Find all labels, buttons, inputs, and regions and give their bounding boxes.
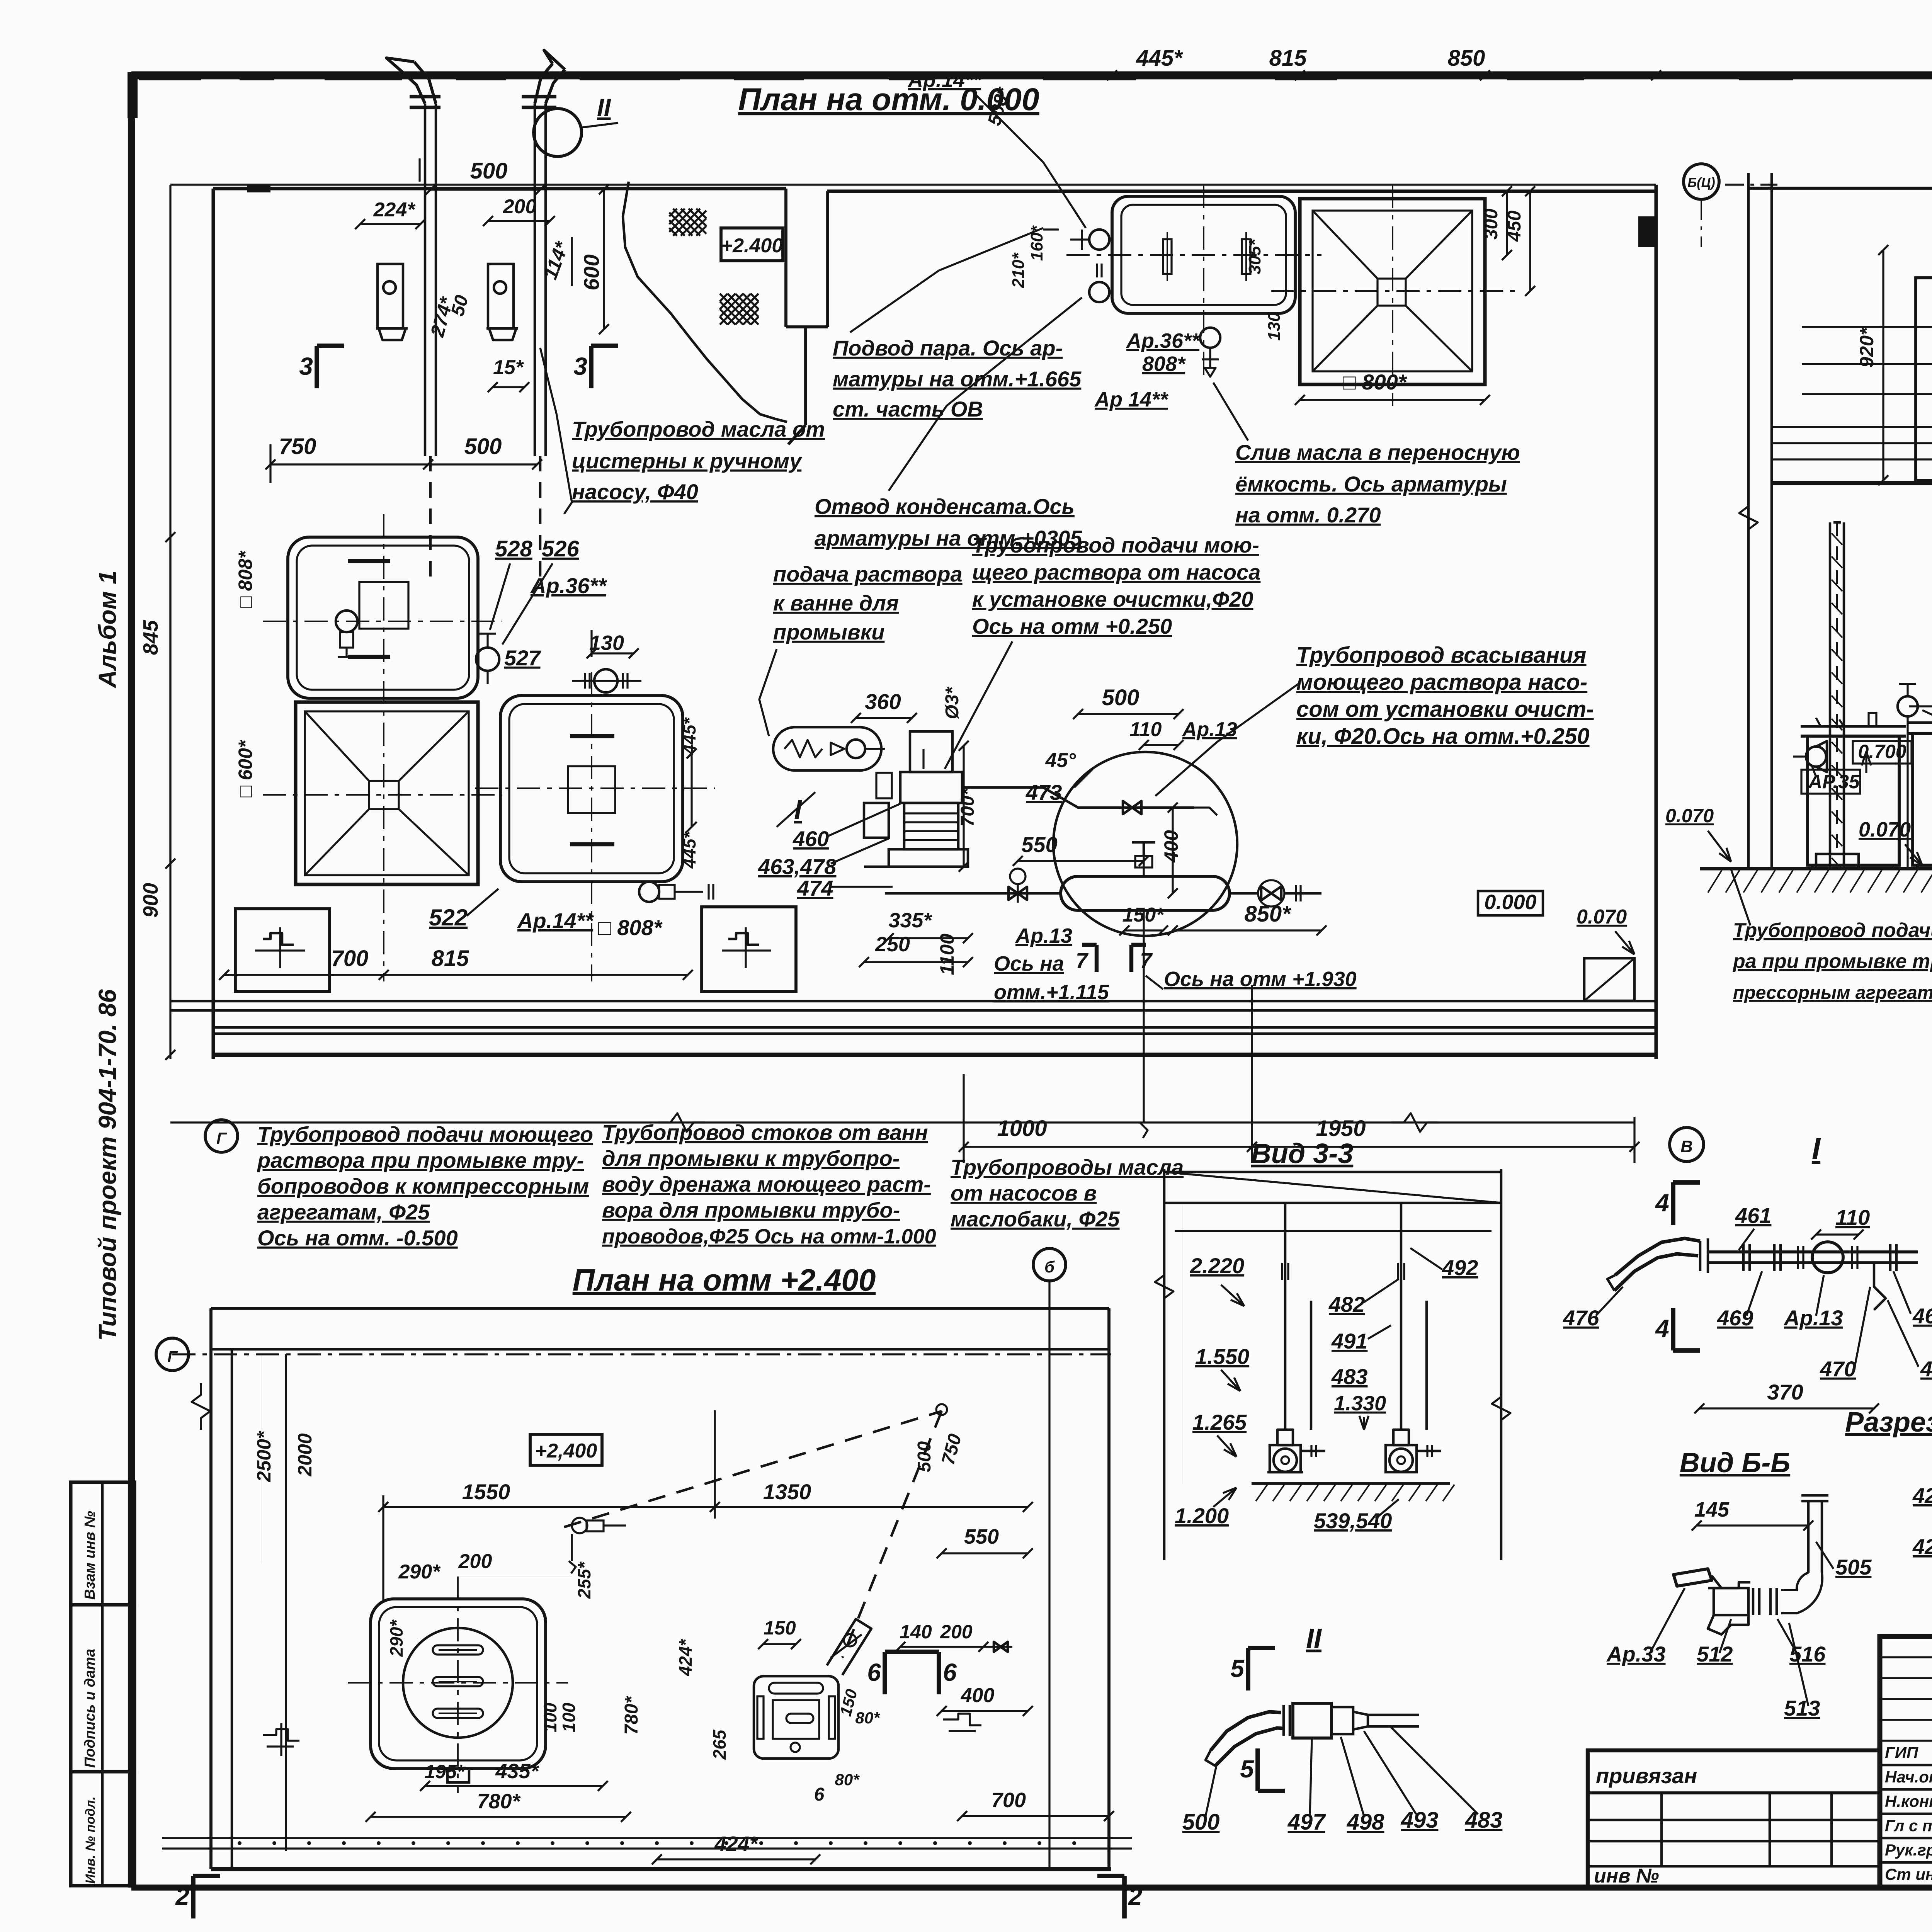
svg-text:ст. часть ОВ: ст. часть ОВ — [833, 397, 983, 421]
svg-text:100: 100 — [540, 1702, 560, 1732]
svg-text:+2.400: +2.400 — [721, 235, 783, 257]
vid33 spray unit 2 — [1386, 1445, 1441, 1472]
svg-text:473: 473 — [1026, 780, 1062, 804]
svg-text:Трубопровод подачи моющего рас: Трубопровод подачи моющего раство- — [1733, 919, 1932, 942]
valve Ар35 tank1 — [1793, 741, 1827, 772]
svg-text:отм.+1.115: отм.+1.115 — [994, 981, 1109, 1004]
vid22 top line — [1748, 187, 1932, 190]
svg-text:Ар.13: Ар.13 — [1783, 1306, 1843, 1330]
svg-text:255*: 255* — [574, 1561, 594, 1599]
svg-text:0.070: 0.070 — [1859, 818, 1911, 841]
svg-text:инв №: инв № — [1594, 1865, 1659, 1887]
svg-text:2.220: 2.220 — [1190, 1253, 1244, 1278]
hand pump riser pipe 1 — [386, 58, 440, 580]
svg-text:1.330: 1.330 — [1334, 1392, 1386, 1415]
svg-text:0.000: 0.000 — [1484, 891, 1536, 914]
vid22 axis line — [1725, 184, 1777, 185]
section mark 3 left — [315, 346, 319, 388]
bath 2 rounded — [500, 696, 683, 882]
svg-text:472: 472 — [1920, 1357, 1932, 1381]
svg-text:160*: 160* — [1027, 225, 1046, 261]
bath2 axis — [591, 672, 592, 981]
detail circle II — [534, 109, 582, 156]
dim 1000 1950 line — [964, 1146, 1634, 1148]
level label +2.400 boxed — [721, 228, 783, 261]
dim 700 815 line — [224, 974, 688, 976]
leader подача раствора — [759, 649, 777, 736]
plan24 outer walls — [211, 1308, 1109, 1869]
svg-text:900: 900 — [139, 883, 162, 918]
solution feed tank capsule — [773, 727, 885, 770]
svg-text:привязан: привязан — [1596, 1764, 1697, 1788]
svg-text:Н.контр: Н.контр — [1885, 1792, 1932, 1810]
svg-text:265: 265 — [709, 1729, 730, 1760]
plan24 axis Г — [172, 1353, 1111, 1355]
label 0.700 tank1 — [1853, 741, 1912, 764]
detail II section marks 5 — [1246, 1648, 1250, 1690]
svg-text:445*: 445* — [1136, 46, 1183, 71]
svg-text:497: 497 — [1287, 1810, 1327, 1835]
svg-text:б: б — [1044, 1258, 1055, 1276]
title block outer — [1880, 1636, 1932, 1888]
vid33 hanging pipe 2 — [1393, 1203, 1427, 1445]
suction elbow to circle — [1194, 808, 1217, 815]
svg-text:460: 460 — [1912, 1304, 1932, 1328]
svg-text:матуры на отм.+1.665: матуры на отм.+1.665 — [833, 367, 1082, 391]
svg-text:435*: 435* — [495, 1760, 539, 1783]
label Ар.35 — [1801, 770, 1860, 794]
svg-text:45°: 45° — [1045, 749, 1077, 772]
svg-text:335*: 335* — [888, 909, 932, 932]
svg-text:□ 808*: □ 808* — [235, 550, 256, 608]
svg-text:250: 250 — [875, 933, 910, 956]
main pipe at +1.115 — [885, 869, 1061, 903]
svg-text:Ось на отм +1.930: Ось на отм +1.930 — [1164, 968, 1357, 991]
svg-text:290*: 290* — [386, 1619, 406, 1657]
hatch patch lower — [720, 294, 759, 325]
svg-text:насосу, Ф40: насосу, Ф40 — [572, 480, 698, 504]
svg-text:ра при промывке трубопроводов: ра при промывке трубопроводов к ком. — [1732, 950, 1932, 973]
svg-text:Ар 14**: Ар 14** — [1094, 388, 1169, 411]
bath slots — [1163, 232, 1250, 281]
svg-text:845: 845 — [139, 620, 162, 655]
svg-text:200: 200 — [458, 1550, 492, 1573]
svg-text:15*: 15* — [493, 356, 524, 379]
svg-text:200: 200 — [940, 1621, 973, 1643]
vid33 base line — [1252, 1482, 1450, 1485]
vid22 left wall — [1770, 173, 1773, 869]
svg-text:Трубопровод подачи моющего: Трубопровод подачи моющего — [257, 1122, 593, 1146]
svg-text:Типовой проект 904-1-70. 86: Типовой проект 904-1-70. 86 — [94, 989, 121, 1341]
svg-text:492: 492 — [1442, 1255, 1478, 1280]
hand pump bracket 2 — [486, 264, 518, 340]
svg-text:145: 145 — [1694, 1498, 1730, 1521]
svg-text:I: I — [1812, 1131, 1821, 1166]
svg-text:Трубопровод всасывания: Трубопровод всасывания — [1296, 643, 1587, 668]
vid33 spray unit 1 — [1267, 1445, 1325, 1472]
vid22 axis circle Б4 — [1684, 164, 1719, 199]
svg-text:II: II — [597, 94, 611, 121]
svg-text:224*: 224* — [373, 199, 416, 221]
detail II hose — [1211, 1712, 1281, 1750]
svg-text:500: 500 — [1102, 685, 1139, 710]
leader Отвод конденсата — [889, 298, 1082, 491]
svg-text:539,540: 539,540 — [1314, 1509, 1392, 1533]
svg-text:780*: 780* — [477, 1790, 521, 1813]
tank outlet valve right — [1230, 880, 1321, 906]
svg-text:□ 800*: □ 800* — [1343, 370, 1407, 394]
svg-text:200: 200 — [503, 196, 537, 218]
axis line from Б(Ц) — [1701, 201, 1702, 247]
svg-text:482: 482 — [1328, 1292, 1365, 1316]
svg-text:305*: 305* — [1245, 239, 1264, 274]
plan outer walls — [170, 185, 1656, 1059]
svg-text:2: 2 — [1128, 1883, 1142, 1910]
svg-text:491: 491 — [1331, 1329, 1367, 1353]
svg-text:445*: 445* — [679, 831, 699, 869]
svg-text:Вид 3-3: Вид 3-3 — [1251, 1138, 1354, 1169]
detail I pipe run — [1700, 1238, 1918, 1273]
vidBB tap assembly — [1673, 1495, 1828, 1634]
svg-text:Ар.33: Ар.33 — [1606, 1642, 1666, 1666]
dimension 750 500 line — [270, 463, 537, 465]
svg-text:□ 600*: □ 600* — [235, 740, 256, 798]
svg-text:470: 470 — [1820, 1357, 1856, 1381]
svg-text:Ст инж: Ст инж — [1885, 1865, 1932, 1883]
svg-text:110: 110 — [1835, 1205, 1870, 1230]
axis circle Г top — [205, 1120, 238, 1152]
svg-text:Трубопровод масла от: Трубопровод масла от — [572, 417, 825, 441]
ground line vid22 — [1700, 867, 1932, 870]
svg-text:4: 4 — [1655, 1189, 1669, 1217]
svg-text:850: 850 — [1448, 46, 1485, 71]
svg-text:7: 7 — [1076, 948, 1089, 973]
level 0.000 boxed — [1478, 891, 1543, 915]
svg-text:1550: 1550 — [462, 1480, 510, 1504]
valve between baths — [476, 634, 499, 684]
svg-text:воду дренажа моющего раст-: воду дренажа моющего раст- — [602, 1172, 931, 1196]
curved boundary line of +2.400 platform — [623, 182, 787, 422]
axis circle В bottom — [1670, 1128, 1704, 1162]
hatch patch upper — [669, 209, 706, 236]
svg-text:3: 3 — [573, 352, 587, 380]
hand pump bracket 1 — [376, 264, 408, 340]
svg-text:512: 512 — [1697, 1642, 1733, 1666]
leader Слив масла — [1213, 383, 1248, 440]
svg-text:0.700: 0.700 — [1858, 741, 1906, 762]
bath24 slots — [433, 1645, 483, 1718]
wall hatch right bottom of plan — [1584, 958, 1634, 1001]
svg-text:920*: 920* — [1856, 327, 1878, 367]
svg-text:550: 550 — [964, 1525, 999, 1548]
valve on bath24 top — [569, 1518, 626, 1573]
hand pump riser pipe 2 — [522, 50, 565, 580]
svg-text:Нач.отд.: Нач.отд. — [1885, 1768, 1932, 1786]
svg-text:В: В — [1680, 1137, 1693, 1156]
steam pipe axis — [1909, 705, 1932, 707]
svg-text:400: 400 — [961, 1684, 995, 1707]
section mark 3 right — [589, 346, 594, 388]
plan24 inner vertical line — [285, 1354, 287, 1851]
drain line from tank down — [1143, 910, 1145, 1122]
bath24 axes — [348, 1682, 568, 1684]
svg-text:Слив масла в переносную: Слив масла в переносную — [1235, 440, 1520, 464]
svg-text:808*: 808* — [1142, 352, 1186, 376]
svg-text:80*: 80* — [855, 1709, 880, 1727]
suction pipe upper with 45deg — [923, 749, 1194, 814]
leader Подвод пара — [850, 228, 1043, 332]
svg-text:Ар.14**: Ар.14** — [907, 68, 982, 92]
vid33 hanging pipe 1 — [1277, 1203, 1311, 1445]
svg-text:150: 150 — [764, 1617, 796, 1639]
title block thin rows top — [1880, 1657, 1932, 1741]
svg-text:290*: 290* — [398, 1561, 441, 1583]
svg-text:Альбом 1: Альбом 1 — [94, 571, 121, 689]
svg-text:ки, Ф20.Ось на отм.+0.250: ки, Ф20.Ось на отм.+0.250 — [1296, 724, 1590, 749]
vid33 ceiling line — [1175, 1230, 1492, 1232]
svg-text:Ø3*: Ø3* — [942, 686, 963, 719]
left column in vid22 — [1816, 522, 1859, 869]
svg-text:483: 483 — [1331, 1364, 1367, 1389]
svg-text:сом от установки очист-: сом от установки очист- — [1296, 697, 1594, 722]
wall block filled 2 — [247, 185, 270, 192]
svg-text:План на отм +2.400: План на отм +2.400 — [573, 1263, 876, 1297]
margin stamp boxes — [71, 1482, 134, 1886]
svg-text:Ось на отм +0.250: Ось на отм +0.250 — [972, 614, 1172, 638]
svg-text:к установке очистки,Ф20: к установке очистки,Ф20 — [972, 587, 1253, 611]
svg-text:6: 6 — [867, 1658, 881, 1686]
leader 526 — [502, 563, 553, 645]
dots row plan24 — [238, 1841, 1076, 1845]
plan top dimension line 445 815 850 — [1112, 74, 1656, 76]
svg-text:483: 483 — [1465, 1808, 1503, 1833]
svg-text:0.070: 0.070 — [1577, 906, 1627, 928]
vid33 dim verticals — [1182, 1203, 1183, 1483]
detail I hose — [1614, 1254, 1698, 1291]
small unit plan24 — [754, 1676, 838, 1759]
level +2400 boxed plan24 — [530, 1434, 602, 1465]
svg-text:промывки: промывки — [773, 620, 884, 644]
niche walls near +2.400 zone — [786, 189, 828, 444]
vid33 base hatch — [1256, 1485, 1454, 1501]
svg-text:Г: Г — [167, 1347, 178, 1366]
svg-text:527: 527 — [504, 646, 541, 670]
leader note podachi — [1731, 869, 1750, 925]
foundation block right — [702, 907, 796, 992]
svg-text:проводов,Ф25 Ось на отм-1.000: проводов,Ф25 Ось на отм-1.000 — [602, 1225, 936, 1248]
svg-text:780*: 780* — [621, 1696, 642, 1735]
svg-text:Ар.13: Ар.13 — [1182, 718, 1237, 741]
vid33 top band — [1164, 1172, 1501, 1203]
svg-text:Взам инв №: Взам инв № — [82, 1511, 98, 1600]
svg-text:140: 140 — [900, 1621, 932, 1643]
svg-text:3: 3 — [299, 352, 313, 380]
detail circle around tank — [1053, 752, 1237, 936]
svg-text:2000: 2000 — [294, 1433, 316, 1476]
svg-text:5: 5 — [1230, 1655, 1245, 1682]
svg-text:6: 6 — [943, 1658, 957, 1686]
border scan blobs — [128, 72, 1932, 927]
svg-text:Вид Б-Б: Вид Б-Б — [1680, 1447, 1790, 1478]
svg-text:2: 2 — [175, 1883, 189, 1910]
axis circle Г plan24 — [156, 1338, 189, 1371]
svg-text:□ 808*: □ 808* — [598, 915, 663, 940]
svg-text:0.070: 0.070 — [1665, 805, 1714, 827]
svg-text:+2,400: +2,400 — [535, 1440, 597, 1462]
svg-text:2500*: 2500* — [253, 1430, 275, 1482]
svg-text:ГИП: ГИП — [1885, 1743, 1918, 1762]
svg-text:750: 750 — [279, 434, 316, 459]
detail I tee down — [1874, 1263, 1886, 1310]
svg-text:360: 360 — [865, 689, 901, 714]
svg-text:130: 130 — [1265, 312, 1284, 341]
axis circle Б plan24 — [1033, 1248, 1066, 1281]
svg-text:1.265: 1.265 — [1192, 1410, 1247, 1434]
dim 845 900 vertical left — [169, 537, 171, 864]
wall block filled — [1638, 216, 1656, 247]
leader 528 — [490, 563, 510, 630]
svg-text:1.550: 1.550 — [1195, 1344, 1249, 1369]
leader to note — [540, 348, 572, 514]
bath1 axes — [263, 621, 502, 622]
svg-text:маслобаки, Ф25: маслобаки, Ф25 — [951, 1207, 1120, 1231]
svg-text:к ванне для: к ванне для — [773, 591, 899, 615]
leader Трубопровод всасывания — [1155, 684, 1298, 796]
pit 1 square with X — [296, 702, 478, 884]
svg-text:461: 461 — [1735, 1203, 1771, 1228]
svg-text:1100: 1100 — [936, 934, 958, 975]
vid22 level lines upper — [1802, 327, 1932, 394]
svg-text:423: 423 — [1912, 1483, 1932, 1508]
svg-text:Трубопровод стоков от ванн: Трубопровод стоков от ванн — [602, 1120, 928, 1145]
svg-text:300: 300 — [1481, 209, 1502, 240]
valve bottom bath2 — [639, 882, 713, 902]
valve top of bath2 — [572, 669, 641, 692]
break marks on plan bottom line — [659, 1113, 705, 1132]
bath2 inner square — [568, 766, 615, 813]
svg-text:526: 526 — [542, 536, 580, 561]
left column pipe dashed — [1836, 522, 1838, 854]
svg-text:493: 493 — [1401, 1808, 1439, 1833]
oil tank 1 vid22 — [1801, 713, 1906, 869]
svg-text:Подпись и дата: Подпись и дата — [82, 1649, 98, 1768]
svg-text:422: 422 — [1912, 1534, 1932, 1559]
bath24 bottom stub — [447, 1769, 469, 1782]
svg-text:моющего раствора насо-: моющего раствора насо- — [1296, 670, 1587, 695]
svg-text:815: 815 — [1269, 46, 1307, 71]
break mark М left — [192, 1383, 210, 1430]
svg-text:400: 400 — [1160, 830, 1182, 863]
plan bottom wall band — [170, 1001, 1656, 1055]
svg-text:498: 498 — [1347, 1810, 1385, 1835]
unit hose reel dashed — [827, 1619, 871, 1675]
svg-text:бопроводов к компрессорным: бопроводов к компрессорным — [257, 1174, 589, 1198]
bath2 slots — [570, 736, 614, 844]
svg-text:463,478: 463,478 — [758, 854, 837, 879]
svg-text:щего раствора от насоса: щего раствора от насоса — [972, 560, 1260, 584]
valve small right — [983, 1642, 1012, 1652]
drain valve below bath — [1200, 328, 1220, 377]
svg-text:528: 528 — [495, 536, 533, 561]
svg-text:Ар.14**: Ар.14** — [517, 908, 594, 933]
svg-text:5: 5 — [1240, 1755, 1254, 1783]
svg-text:Ар.13: Ар.13 — [1015, 924, 1072, 947]
section marks 2 bottom — [191, 1876, 196, 1918]
svg-text:на отм. 0.270: на отм. 0.270 — [1235, 503, 1381, 527]
svg-text:Отвод конденсата.Ось: Отвод конденсата.Ось — [815, 494, 1075, 519]
svg-text:700: 700 — [331, 946, 369, 971]
svg-text:4: 4 — [1655, 1315, 1669, 1342]
svg-text:ёмкость. Ось арматуры: ёмкость. Ось арматуры — [1235, 472, 1507, 496]
svg-text:195*: 195* — [425, 1761, 465, 1782]
svg-text:370: 370 — [1767, 1380, 1803, 1404]
svg-text:700*: 700* — [957, 787, 978, 827]
privyazan box — [1588, 1750, 1880, 1888]
plan24 bottom band — [162, 1838, 1132, 1869]
bath 1 left rounded — [288, 537, 478, 698]
svg-text:80*: 80* — [835, 1770, 860, 1789]
svg-text:424*: 424* — [675, 1639, 696, 1677]
svg-text:7: 7 — [1140, 948, 1153, 973]
cross symbol left bottom — [263, 1723, 299, 1756]
svg-text:Б(Ц): Б(Ц) — [1687, 175, 1715, 190]
upper bath sink 508 — [1112, 196, 1295, 313]
svg-text:цистерны к ручному: цистерны к ручному — [572, 449, 803, 473]
pit axis — [1271, 290, 1519, 292]
bath axis lines — [1066, 254, 1321, 256]
vid33 side boundaries — [1155, 1169, 1510, 1560]
pressure tank capsule — [1061, 842, 1230, 910]
bath1 slots — [348, 561, 390, 657]
svg-text:522: 522 — [429, 905, 468, 930]
bath1 inner square — [359, 582, 408, 629]
pit square 800 with X — [1300, 199, 1485, 384]
dashed line to top right — [564, 1411, 942, 1527]
svg-text:Разрез 7-7: Разрез 7-7 — [1845, 1407, 1932, 1438]
svg-text:700: 700 — [991, 1789, 1026, 1812]
svg-text:500: 500 — [914, 1441, 935, 1472]
svg-text:850*: 850* — [1244, 901, 1291, 927]
svg-text:474: 474 — [797, 876, 833, 900]
vid22 left boundary — [1747, 173, 1750, 869]
svg-text:500: 500 — [470, 158, 508, 184]
svg-text:1000: 1000 — [997, 1116, 1047, 1141]
svg-text:II: II — [1306, 1623, 1322, 1654]
svg-text:прессорным агрегатам,Ф25 Ось н: прессорным агрегатам,Ф25 Ось на отм-0.07… — [1733, 983, 1932, 1003]
svg-text:Инв. № подл.: Инв. № подл. — [83, 1796, 98, 1884]
svg-text:Ось на отм. -0.500: Ось на отм. -0.500 — [257, 1226, 458, 1250]
svg-text:550: 550 — [1021, 832, 1057, 857]
pit1 axis — [263, 794, 502, 796]
svg-text:476: 476 — [1563, 1306, 1599, 1330]
section marks 7 — [1076, 945, 1153, 973]
svg-text:от насосов в: от насосов в — [951, 1181, 1097, 1205]
ground hatch vid22 — [1708, 870, 1932, 893]
steam valve left — [1898, 684, 1918, 869]
svg-text:1350: 1350 — [763, 1480, 811, 1504]
svg-text:460: 460 — [793, 827, 829, 851]
foundation block left — [235, 909, 330, 992]
valves left of bath — [1043, 230, 1109, 302]
svg-text:100: 100 — [559, 1702, 579, 1732]
svg-text:Гл с пец: Гл с пец — [1885, 1816, 1932, 1835]
dim 800 pit — [1300, 399, 1485, 401]
title block name rows — [1880, 1765, 1932, 1862]
svg-text:Г: Г — [216, 1129, 227, 1147]
svg-text:Ар.36**: Ар.36** — [1126, 329, 1201, 352]
svg-text:Трубопровод подачи мою-: Трубопровод подачи мою- — [972, 533, 1259, 557]
svg-text:513: 513 — [1784, 1696, 1820, 1720]
